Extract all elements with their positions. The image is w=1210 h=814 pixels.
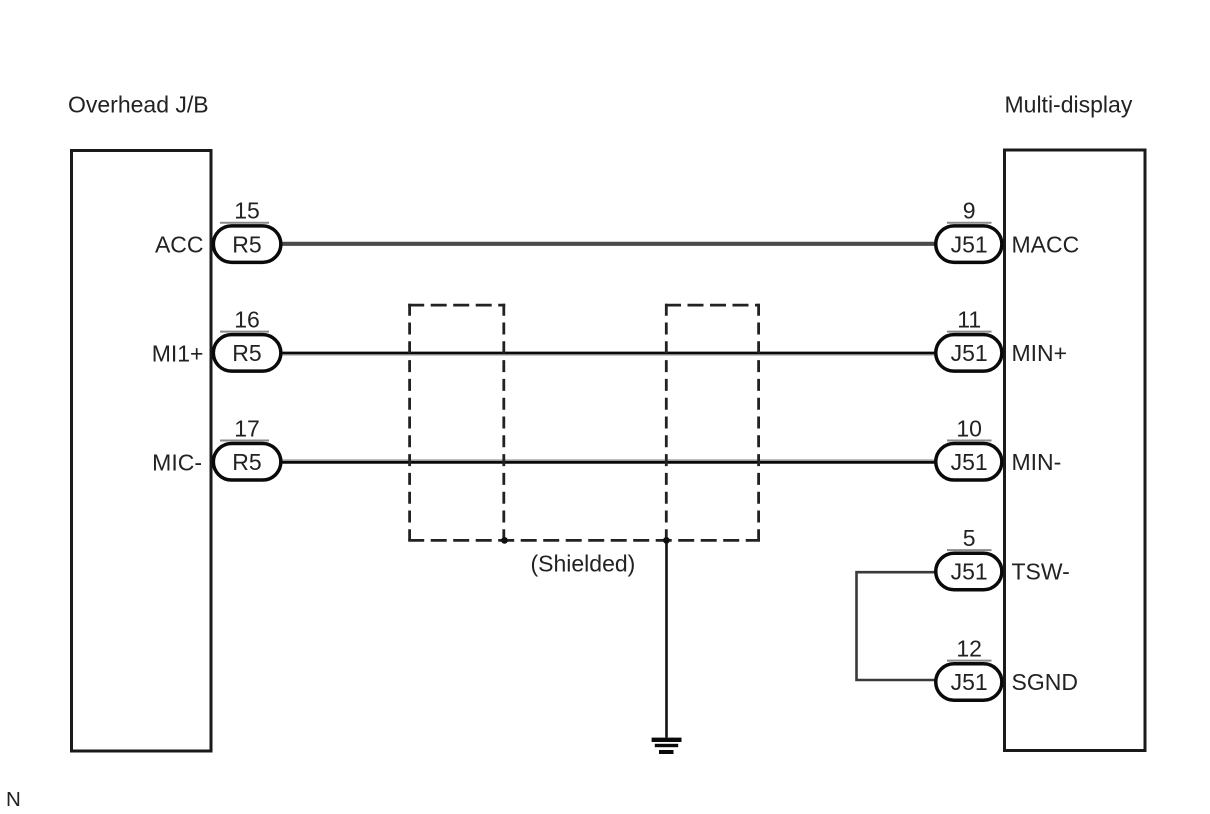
svg-text:J51: J51 [951, 231, 988, 257]
connector J51 pin 11 (MIN+) [936, 307, 1002, 372]
Overhead J/B box [72, 151, 212, 752]
svg-text:R5: R5 [232, 231, 261, 257]
svg-text:17: 17 [234, 415, 260, 441]
svg-text:MIN-: MIN- [1012, 449, 1062, 475]
wire MI1+ to MIN+ [280, 352, 936, 355]
connector J51 pin 9 (MACC) [936, 198, 1002, 263]
svg-text:J51: J51 [951, 449, 988, 475]
svg-text:R5: R5 [232, 340, 261, 366]
svg-text:MIN+: MIN+ [1012, 340, 1068, 366]
connector R5 pin 17 (MIC-) [213, 415, 281, 480]
svg-text:10: 10 [956, 415, 982, 441]
shield bottom dashed line [408, 539, 760, 542]
svg-text:5: 5 [963, 525, 976, 551]
svg-text:MI1+: MI1+ [152, 341, 204, 367]
svg-text:MIC-: MIC- [152, 449, 202, 475]
svg-text:(Shielded): (Shielded) [530, 551, 635, 577]
svg-text:15: 15 [234, 198, 260, 224]
connector R5 pin 15 (ACC) [213, 198, 281, 263]
svg-text:SGND: SGND [1012, 669, 1078, 695]
wire TSW- to SGND jumper [857, 572, 937, 680]
svg-text:11: 11 [957, 307, 981, 333]
shield right dashed box [665, 304, 760, 541]
connector J51 pin 10 (MIN-) [936, 415, 1002, 480]
shield junction dot left [501, 537, 508, 544]
svg-text:16: 16 [234, 307, 260, 333]
svg-text:J51: J51 [951, 669, 988, 695]
connector J51 pin 5 (TSW-) [936, 525, 1002, 590]
svg-text:Multi-display: Multi-display [1005, 92, 1133, 118]
shield left dashed box [408, 304, 505, 541]
svg-text:12: 12 [956, 636, 982, 662]
svg-text:J51: J51 [951, 559, 988, 585]
wire ACC to MACC [280, 242, 936, 246]
wire shield to ground [665, 540, 668, 737]
connector R5 pin 16 (MI1+) [213, 307, 281, 372]
svg-text:Overhead J/B: Overhead J/B [68, 92, 209, 118]
connector J51 pin 12 (SGND) [936, 636, 1002, 701]
wire MIC- to MIN- [280, 459, 936, 461]
shield junction dot right [663, 537, 670, 544]
svg-text:J51: J51 [951, 340, 988, 366]
svg-text:R5: R5 [232, 449, 261, 475]
ground symbol [652, 738, 682, 754]
svg-text:N: N [6, 788, 21, 811]
Multi-display box [1005, 150, 1146, 751]
svg-text:9: 9 [963, 198, 976, 224]
svg-text:TSW-: TSW- [1012, 559, 1070, 585]
svg-text:ACC: ACC [155, 232, 204, 258]
svg-text:MACC: MACC [1012, 231, 1080, 257]
